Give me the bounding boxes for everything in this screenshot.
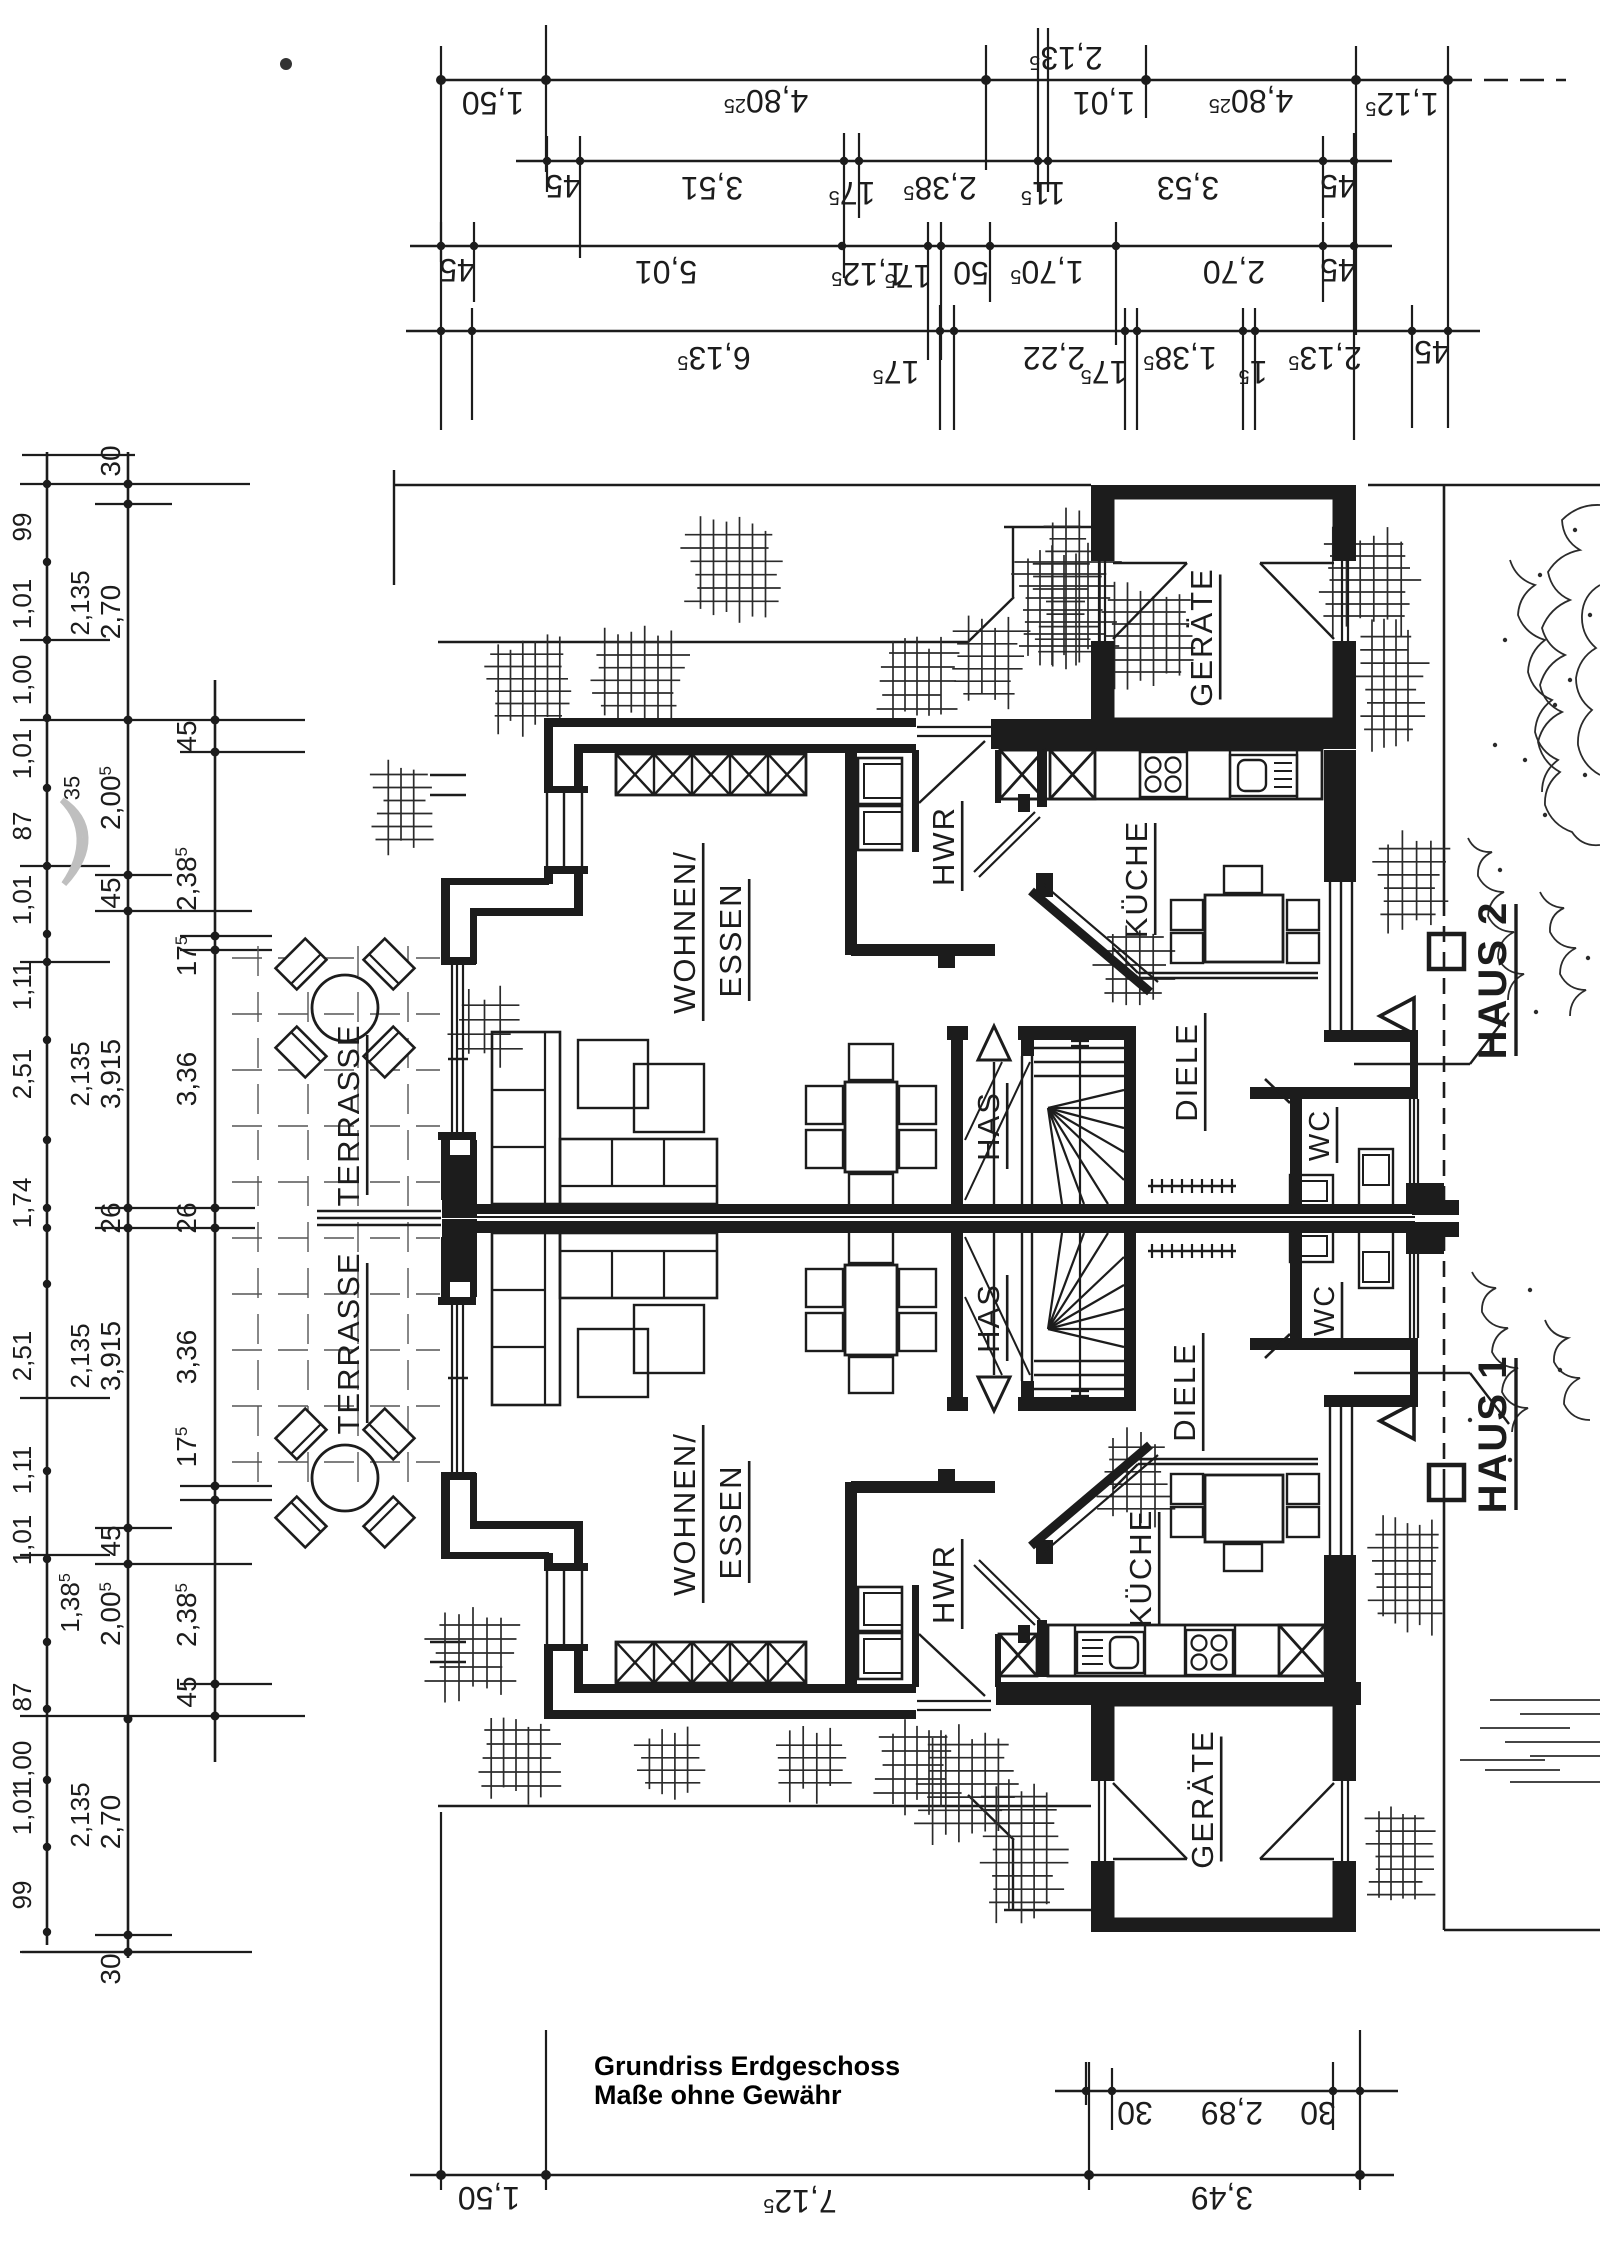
svg-text:WC: WC bbox=[1309, 1284, 1341, 1336]
svg-text:3,915: 3,915 bbox=[95, 1039, 126, 1109]
svg-text:2,135: 2,135 bbox=[65, 1041, 95, 1106]
svg-text:1,11: 1,11 bbox=[7, 962, 37, 1011]
svg-text:1,50: 1,50 bbox=[458, 2180, 520, 2216]
svg-text:HAUS 1: HAUS 1 bbox=[1471, 1355, 1515, 1514]
svg-text:2,70: 2,70 bbox=[95, 585, 126, 640]
svg-text:45: 45 bbox=[439, 252, 475, 288]
svg-text:2,005: 2,005 bbox=[95, 766, 126, 830]
svg-text:30: 30 bbox=[1300, 2095, 1336, 2131]
svg-text:45: 45 bbox=[1414, 334, 1450, 370]
svg-text:99: 99 bbox=[7, 513, 37, 542]
svg-text:2,135: 2,135 bbox=[65, 1323, 95, 1388]
svg-text:26: 26 bbox=[171, 1202, 202, 1233]
svg-text:2,51: 2,51 bbox=[7, 1049, 37, 1100]
svg-text:HAUS 2: HAUS 2 bbox=[1471, 901, 1515, 1060]
svg-text:ESSEN: ESSEN bbox=[713, 882, 748, 997]
svg-text:1,01: 1,01 bbox=[7, 1785, 37, 1836]
svg-text:3,915: 3,915 bbox=[95, 1321, 126, 1391]
svg-text:1,01: 1,01 bbox=[7, 875, 37, 926]
svg-text:1,00: 1,00 bbox=[7, 655, 37, 706]
svg-text:99: 99 bbox=[7, 1881, 37, 1910]
svg-text:2,385: 2,385 bbox=[171, 847, 202, 911]
svg-text:5,01: 5,01 bbox=[635, 254, 697, 290]
svg-text:1,74: 1,74 bbox=[7, 1178, 37, 1229]
svg-text:TERRASSE: TERRASSE bbox=[331, 1023, 366, 1206]
svg-text:GERÄTE: GERÄTE bbox=[1184, 567, 1219, 706]
svg-text:3,53: 3,53 bbox=[1157, 170, 1219, 206]
svg-text:KÜCHE: KÜCHE bbox=[1123, 1509, 1158, 1628]
svg-text:45: 45 bbox=[545, 168, 581, 204]
svg-text:3,51: 3,51 bbox=[681, 170, 743, 206]
svg-text:1,01: 1,01 bbox=[7, 579, 37, 630]
svg-text:1,11: 1,11 bbox=[7, 1446, 37, 1495]
svg-text:45: 45 bbox=[171, 720, 202, 751]
svg-text:DIELE: DIELE bbox=[1169, 1022, 1204, 1122]
svg-text:ESSEN: ESSEN bbox=[713, 1464, 748, 1579]
svg-text:DIELE: DIELE bbox=[1167, 1342, 1202, 1442]
svg-text:87: 87 bbox=[7, 812, 37, 841]
svg-text:WOHNEN/: WOHNEN/ bbox=[667, 850, 702, 1014]
svg-text:87: 87 bbox=[7, 1683, 37, 1712]
svg-text:1,01: 1,01 bbox=[1073, 85, 1135, 121]
svg-text:2,51: 2,51 bbox=[7, 1331, 37, 1382]
svg-text:35: 35 bbox=[60, 776, 85, 800]
svg-text:Grundriss Erdgeschoss: Grundriss Erdgeschoss bbox=[594, 2051, 900, 2081]
svg-text:HWR: HWR bbox=[926, 806, 961, 886]
svg-text:45: 45 bbox=[95, 1525, 126, 1556]
svg-text:2,135: 2,135 bbox=[65, 570, 95, 635]
svg-text:50: 50 bbox=[953, 255, 989, 291]
svg-text:2,005: 2,005 bbox=[95, 1582, 126, 1646]
svg-text:TERRASSE: TERRASSE bbox=[331, 1251, 366, 1434]
svg-text:2,22: 2,22 bbox=[1023, 340, 1085, 376]
svg-text:2,70: 2,70 bbox=[1203, 254, 1265, 290]
svg-text:2,135: 2,135 bbox=[65, 1782, 95, 1847]
svg-text:30: 30 bbox=[95, 1953, 126, 1984]
svg-text:30: 30 bbox=[1117, 2095, 1153, 2131]
svg-text:1,00: 1,00 bbox=[7, 1741, 37, 1792]
svg-text:GERÄTE: GERÄTE bbox=[1185, 1729, 1220, 1868]
svg-text:1,01: 1,01 bbox=[7, 1515, 37, 1566]
svg-text:3,49: 3,49 bbox=[1191, 2180, 1253, 2216]
svg-text:WC: WC bbox=[1304, 1109, 1336, 1161]
svg-text:45: 45 bbox=[95, 877, 126, 908]
svg-text:1,01: 1,01 bbox=[7, 729, 37, 780]
svg-text:WOHNEN/: WOHNEN/ bbox=[667, 1432, 702, 1596]
svg-text:Maße ohne Gewähr: Maße ohne Gewähr bbox=[594, 2080, 842, 2110]
svg-text:30: 30 bbox=[95, 445, 126, 476]
svg-text:3,36: 3,36 bbox=[171, 1330, 202, 1385]
svg-text:2,385: 2,385 bbox=[171, 1583, 202, 1647]
svg-text:KÜCHE: KÜCHE bbox=[1119, 820, 1154, 939]
svg-text:2,89: 2,89 bbox=[1201, 2095, 1263, 2131]
svg-text:45: 45 bbox=[171, 1676, 202, 1707]
svg-text:HAS: HAS bbox=[971, 1283, 1006, 1353]
svg-text:HWR: HWR bbox=[926, 1544, 961, 1624]
svg-text:1,50: 1,50 bbox=[462, 85, 524, 121]
svg-text:2,70: 2,70 bbox=[95, 1795, 126, 1850]
svg-text:26: 26 bbox=[95, 1202, 126, 1233]
svg-text:45: 45 bbox=[1320, 168, 1356, 204]
svg-text:45: 45 bbox=[1320, 252, 1356, 288]
svg-text:3,36: 3,36 bbox=[171, 1052, 202, 1107]
svg-text:HAS: HAS bbox=[971, 1091, 1006, 1161]
